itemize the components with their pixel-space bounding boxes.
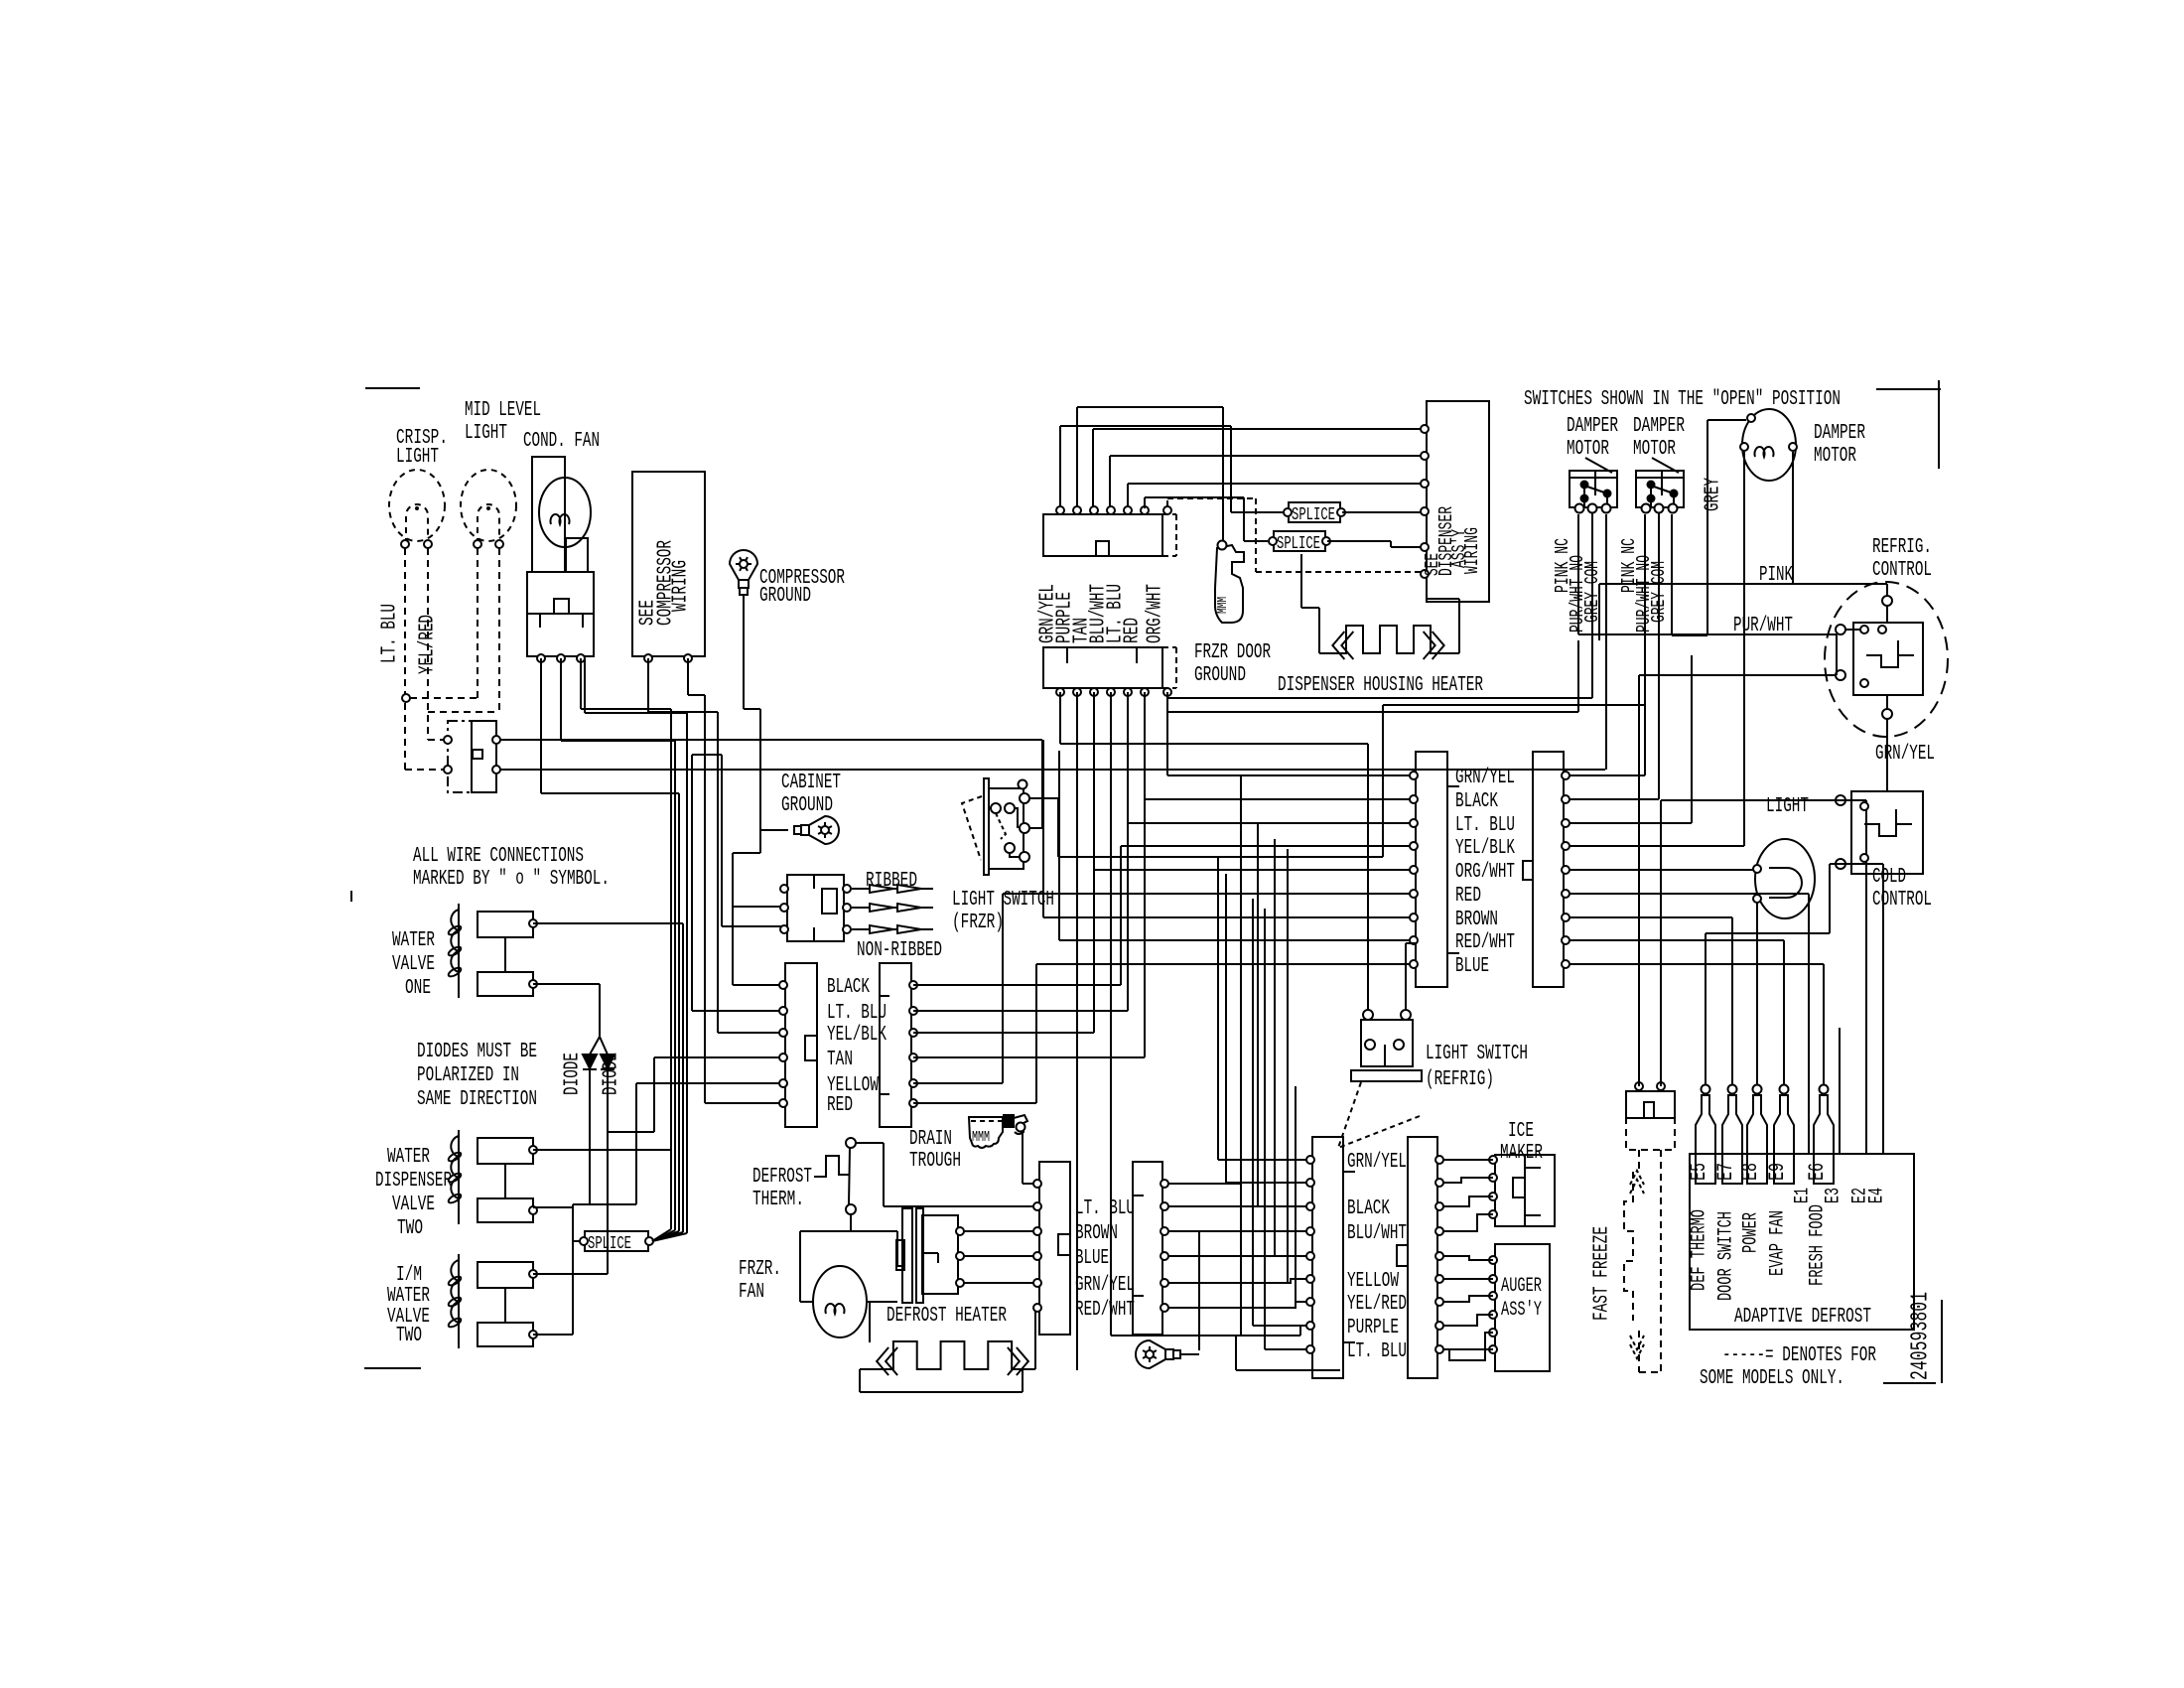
- svg-text:DAMPER: DAMPER: [1567, 415, 1618, 438]
- pin: [843, 885, 851, 893]
- wire: [913, 1056, 1145, 1058]
- wire: [1236, 1369, 1340, 1371]
- svg-text:E1: E1: [1791, 1188, 1814, 1203]
- wire long: [1240, 776, 1242, 1336]
- diode D2: [601, 1055, 614, 1068]
- wire: [867, 1301, 897, 1303]
- dashed wire: [1660, 1150, 1662, 1372]
- wire: [1127, 484, 1129, 506]
- door switch: [472, 721, 496, 792]
- wire: [561, 740, 675, 742]
- pin: [557, 654, 565, 662]
- connector C9: [1312, 1137, 1343, 1378]
- wire: [1218, 1159, 1312, 1161]
- svg-text:DAMPER: DAMPER: [1814, 422, 1865, 445]
- svg-text:BLACK: BLACK: [1347, 1197, 1390, 1220]
- svg-text:DIODE: DIODE: [562, 1053, 585, 1095]
- svg-text:LIGHT: LIGHT: [396, 446, 439, 469]
- svg-text:DAMPER: DAMPER: [1633, 415, 1685, 438]
- svg-text:GROUND: GROUND: [1194, 664, 1246, 687]
- wire E3: [1839, 1028, 1841, 1154]
- wire: [573, 1240, 581, 1242]
- svg-text:MID LEVEL: MID LEVEL: [465, 399, 541, 422]
- wire E6: [1823, 964, 1825, 1085]
- dashed ext: [1162, 513, 1176, 515]
- pin top: [1163, 506, 1171, 514]
- wire long: [1076, 775, 1078, 1370]
- dashed ext: [1175, 647, 1177, 688]
- wire: [1691, 655, 1693, 823]
- wire: [1301, 607, 1319, 609]
- connector notch: [1397, 1245, 1408, 1266]
- pin: [1562, 914, 1570, 921]
- svg-text:WATER: WATER: [392, 929, 435, 952]
- wire: [1427, 598, 1459, 600]
- wire E8: [1756, 903, 1758, 1085]
- svg-text:ONE: ONE: [405, 977, 431, 1000]
- leader: [1652, 458, 1679, 473]
- wire: [860, 1368, 870, 1370]
- water dispenser valve two coil: [458, 1130, 460, 1224]
- svg-text:WIRING: WIRING: [1461, 527, 1483, 574]
- box SEE DISPENSER ASS'Y WIRING: [1427, 401, 1489, 602]
- svg-text:MOTOR: MOTOR: [1814, 445, 1856, 468]
- dashed wire: [1255, 498, 1257, 572]
- pin: [779, 1054, 787, 1061]
- lever: [1651, 486, 1674, 493]
- pin: [1033, 1180, 1041, 1188]
- svg-text:SPLICE: SPLICE: [588, 1234, 631, 1254]
- svg-text:TROUGH: TROUGH: [909, 1150, 961, 1173]
- wire: [1022, 1131, 1024, 1184]
- damper switch 1: [1570, 471, 1617, 507]
- wire: [1577, 514, 1579, 634]
- pin: [1642, 504, 1651, 513]
- wire splice fan: [652, 1232, 683, 1241]
- light switch frzr body: [989, 788, 1024, 869]
- contact dot: [1604, 491, 1611, 497]
- pin: [492, 736, 500, 744]
- wire: [1168, 1282, 1288, 1284]
- pin bottom: [1090, 688, 1098, 696]
- svg-text:EVAP FAN: EVAP FAN: [1766, 1210, 1789, 1276]
- pin: [1435, 1179, 1443, 1187]
- wire: [1605, 514, 1607, 770]
- svg-text:RED: RED: [1455, 885, 1481, 908]
- wire: [504, 1288, 506, 1323]
- valve contact lower: [478, 972, 533, 996]
- contact: [1394, 1040, 1404, 1050]
- pin: [1562, 890, 1570, 898]
- wire: [1288, 1279, 1312, 1283]
- wire: [600, 1037, 608, 1055]
- wire: [1570, 963, 1824, 965]
- wire: [1127, 692, 1129, 1011]
- wire: [573, 1203, 636, 1205]
- wire dashed: [405, 769, 448, 771]
- contact dot: [1648, 495, 1655, 502]
- pin: [1410, 914, 1418, 921]
- wire splice fan: [652, 1233, 687, 1241]
- pin: [1489, 1329, 1497, 1336]
- wire E4: [1882, 864, 1884, 1154]
- terminal lug E9: [1774, 1095, 1794, 1184]
- wire to evap ground: [1198, 1231, 1200, 1350]
- wire YEL/RED dashed: [427, 548, 429, 740]
- wire: [1443, 1196, 1493, 1206]
- pin: [1562, 936, 1570, 944]
- svg-text:FRZR.: FRZR.: [739, 1258, 781, 1281]
- connector C1 upper: [1043, 514, 1162, 556]
- terminal: [1337, 508, 1345, 516]
- wire: [1570, 916, 1732, 918]
- wire to splice: [1231, 511, 1283, 513]
- wire: [1145, 496, 1244, 498]
- svg-text:BROWN: BROWN: [1075, 1222, 1118, 1245]
- divider: [1136, 647, 1138, 663]
- wire: [850, 1214, 852, 1231]
- svg-text:LT. BLU: LT. BLU: [379, 604, 402, 663]
- divider: [813, 927, 815, 941]
- wire: [704, 695, 706, 1103]
- wire: [896, 1231, 898, 1266]
- connector ribbed: [787, 875, 844, 941]
- pin: [909, 1054, 917, 1061]
- ribbed arrows: [852, 885, 933, 893]
- stub: [880, 995, 889, 997]
- wire: [560, 658, 562, 741]
- wire: [1792, 452, 1794, 584]
- wire: [691, 755, 693, 1011]
- wire: [1660, 800, 1662, 1086]
- wire: [607, 1132, 609, 1274]
- wire thick: [744, 708, 760, 710]
- wire i/m valve bottom: [533, 1334, 573, 1336]
- wire: [1598, 584, 1600, 640]
- plug notch: [896, 1240, 904, 1270]
- stub: [1525, 1214, 1541, 1216]
- wire valve2 top: [533, 1149, 671, 1151]
- svg-text:VALVE: VALVE: [392, 953, 435, 976]
- pin: [444, 766, 452, 774]
- pin: [1435, 1227, 1443, 1235]
- wire: [1570, 798, 1659, 800]
- diode D1: [583, 1055, 597, 1068]
- svg-text:GROUND: GROUND: [759, 585, 811, 608]
- notch: [1644, 1102, 1654, 1118]
- pin: [909, 1079, 917, 1087]
- pin top: [1107, 506, 1115, 514]
- pin: [644, 654, 652, 662]
- wire: [1257, 824, 1259, 1206]
- svg-text:E3: E3: [1822, 1188, 1844, 1203]
- wire: [1226, 1182, 1312, 1184]
- splice 1: [1289, 502, 1340, 522]
- svg-text:RED/WHT: RED/WHT: [1455, 931, 1515, 954]
- pin: [779, 981, 787, 989]
- svg-text:E9: E9: [1765, 1163, 1790, 1181]
- dashed wire: [1167, 497, 1256, 499]
- stub: [1447, 952, 1459, 954]
- wire i/m valve top: [533, 1273, 608, 1275]
- contact dot: [1581, 495, 1588, 502]
- wire: [1058, 856, 1383, 858]
- pin: [1410, 772, 1418, 779]
- pin: [1489, 1174, 1497, 1182]
- pin: [1562, 960, 1570, 968]
- svg-text:DEFROST HEATER: DEFROST HEATER: [887, 1305, 1007, 1328]
- light switch frzr plate: [984, 778, 989, 875]
- wire: [1093, 428, 1423, 430]
- pin: [1306, 1322, 1314, 1330]
- pin: [1410, 866, 1418, 874]
- pin: [1489, 1275, 1497, 1283]
- wire diode2 down: [607, 1070, 609, 1132]
- pin bottom: [1073, 688, 1081, 696]
- connector notch: [554, 599, 569, 614]
- pin: [1575, 504, 1584, 513]
- wire: [1638, 675, 1640, 1086]
- drain trough heater: [969, 1117, 1003, 1148]
- pin top: [1090, 506, 1098, 514]
- pin: [529, 980, 537, 988]
- damper motor coil: [1742, 409, 1796, 481]
- wire: [1057, 798, 1059, 857]
- stub: [1583, 486, 1585, 506]
- wire: [1059, 692, 1061, 744]
- wire E5: [1705, 933, 1706, 1085]
- wire thick: [1658, 512, 1660, 643]
- pin: [1421, 425, 1429, 433]
- wire LT. BLU: [884, 1205, 1039, 1207]
- svg-text:TAN: TAN: [827, 1049, 853, 1071]
- pin: [1435, 1275, 1443, 1283]
- pin bottom: [1056, 688, 1064, 696]
- pin: [909, 981, 917, 989]
- crisper light lamp: [389, 470, 445, 541]
- terminal lug E5: [1696, 1095, 1715, 1184]
- svg-text:CONTROL: CONTROL: [1872, 889, 1932, 912]
- wire: [1059, 426, 1061, 506]
- svg-text:BLUE: BLUE: [1455, 955, 1489, 978]
- page tick top-left: [365, 387, 420, 389]
- pin: [1160, 1227, 1168, 1235]
- wire LT. BLU to connector: [692, 1010, 783, 1012]
- pin: [1489, 1193, 1497, 1200]
- wire: [860, 1391, 1023, 1393]
- wire: [1296, 1302, 1312, 1308]
- pin: [1602, 504, 1611, 513]
- pin: [779, 1029, 787, 1037]
- wire: [1274, 839, 1276, 1256]
- i/m water valve two coil: [458, 1254, 460, 1348]
- page corner bracket top-right: [1876, 388, 1941, 390]
- stem: [1384, 1045, 1386, 1066]
- wire: [1252, 899, 1254, 1326]
- drain trough clip: [1004, 1115, 1014, 1127]
- wire LT. BLU: [1128, 822, 1416, 824]
- svg-text:SPLICE: SPLICE: [1277, 534, 1320, 554]
- wire: [1671, 514, 1673, 635]
- wire: [733, 984, 783, 986]
- wire: [1443, 1315, 1493, 1326]
- cold control box: [1851, 791, 1923, 874]
- wire: [1265, 1348, 1312, 1350]
- notch: [822, 889, 837, 914]
- pin: [1363, 1010, 1373, 1020]
- svg-text:FAN: FAN: [739, 1281, 764, 1304]
- svg-text:DISPENSER: DISPENSER: [375, 1170, 452, 1193]
- valve contact lower: [478, 1323, 533, 1346]
- wire bundle: [670, 709, 672, 1229]
- pin: [1160, 1304, 1168, 1312]
- wire: [913, 1010, 1128, 1012]
- wire: [1743, 452, 1745, 846]
- svg-text:ORG/WHT: ORG/WHT: [1145, 584, 1167, 643]
- dashed: [971, 1120, 1003, 1122]
- wire splice fan: [652, 1231, 679, 1241]
- wire: [1661, 799, 1866, 801]
- wire valve2 bottom: [533, 1206, 573, 1208]
- wire: [1110, 692, 1112, 1336]
- svg-text:DEF THERMO: DEF THERMO: [1688, 1209, 1710, 1291]
- pin: [1489, 1256, 1497, 1264]
- wire: [1028, 797, 1058, 799]
- pin: [1033, 1279, 1041, 1287]
- mid level light lamp: [461, 470, 516, 541]
- dashed ext: [1162, 646, 1176, 648]
- pin: [529, 1331, 537, 1338]
- wire: [1035, 964, 1037, 1103]
- pin: [1033, 1227, 1041, 1235]
- valve contact upper: [478, 1262, 533, 1288]
- wire: [581, 708, 671, 710]
- contact dot: [1648, 482, 1655, 489]
- svg-text:SOME MODELS ONLY.: SOME MODELS ONLY.: [1700, 1367, 1844, 1390]
- terminal: [846, 1138, 856, 1148]
- compressor ground symbol: [730, 550, 757, 595]
- pin: [1306, 1156, 1314, 1164]
- svg-text:YEL/BLK: YEL/BLK: [827, 1024, 887, 1047]
- stub: [1886, 695, 1888, 709]
- evap ground symbol: [1136, 1340, 1180, 1368]
- wire: [653, 1057, 655, 1132]
- wire diode1 down: [589, 1070, 591, 1204]
- frzr fan motor: [813, 1266, 867, 1337]
- pin: [956, 1252, 964, 1260]
- wire: [913, 984, 1121, 986]
- divider: [813, 875, 815, 889]
- terminal: [474, 540, 481, 548]
- svg-text:DOOR SWITCH: DOOR SWITCH: [1714, 1211, 1737, 1301]
- wire: [1644, 635, 1646, 775]
- wire: [1443, 1333, 1493, 1349]
- wire: [1167, 697, 1592, 699]
- wire: [540, 658, 542, 793]
- wire: [1168, 1255, 1312, 1257]
- wire LT. BLU dashed: [404, 548, 406, 770]
- fast freeze arrow down: [1630, 1336, 1644, 1358]
- terminal: [645, 1237, 653, 1245]
- wire: [1406, 942, 1416, 944]
- wire: [1447, 652, 1459, 654]
- wire E2: [1865, 800, 1867, 1154]
- wire: [1707, 419, 1746, 421]
- pin: [1017, 1123, 1025, 1132]
- wire: [647, 658, 649, 712]
- wire: [1002, 894, 1004, 1083]
- wire BROWN: [1043, 916, 1416, 918]
- contact dot: [1581, 482, 1588, 489]
- stub: [1133, 1195, 1144, 1196]
- wire: [1300, 1325, 1312, 1327]
- defrost therm symbol: [814, 1156, 849, 1177]
- defrost heater plug bar: [916, 1208, 923, 1303]
- wire: [580, 658, 582, 709]
- dashed wire: [1639, 1371, 1661, 1373]
- svg-text:WATER: WATER: [387, 1285, 430, 1308]
- stub: [880, 1093, 889, 1095]
- fast freeze arrow up: [1630, 1171, 1644, 1194]
- wire: [635, 1083, 637, 1204]
- pin: [1033, 1202, 1041, 1210]
- pin: [1669, 504, 1678, 513]
- light switch refrig body: [1361, 1020, 1413, 1066]
- wire: [859, 1369, 861, 1392]
- svg-text:SWITCHES SHOWN IN THE "OPEN" P: SWITCHES SHOWN IN THE "OPEN" POSITION: [1524, 388, 1841, 411]
- light switch refrig base: [1351, 1070, 1422, 1081]
- wire RED/WHT: [1059, 939, 1416, 941]
- svg-text:DEFROST: DEFROST: [752, 1166, 812, 1189]
- svg-text:MMM: MMM: [972, 1129, 990, 1146]
- dashed wire: [1256, 571, 1423, 573]
- wire: [584, 658, 586, 713]
- cond fan bracket: [566, 538, 588, 572]
- terminal: [495, 540, 503, 548]
- wire RED to connector: [705, 1102, 783, 1104]
- pin: [1421, 543, 1429, 551]
- wire: [1299, 1326, 1301, 1336]
- svg-text:ALL WIRE CONNECTIONS: ALL WIRE CONNECTIONS: [413, 845, 584, 868]
- stub: [922, 1252, 938, 1254]
- terminal: [846, 1204, 856, 1214]
- connector notch: [1058, 1234, 1070, 1255]
- wire: [1168, 1230, 1312, 1232]
- pin: [1306, 1179, 1314, 1187]
- box SEE COMPRESSOR WIRING: [632, 472, 705, 656]
- wire dashed: [410, 697, 478, 699]
- connector divider: [539, 614, 541, 628]
- wire: [687, 658, 689, 695]
- wire long y775: [500, 769, 1605, 771]
- wire: [1383, 704, 1645, 706]
- svg-text:E7: E7: [1713, 1163, 1738, 1181]
- pin: [1435, 1322, 1443, 1330]
- defrost heater body: [922, 1215, 958, 1294]
- terminal: [1753, 1085, 1762, 1094]
- connector notch: [1096, 541, 1109, 556]
- pin: [1836, 859, 1845, 869]
- pin bottom: [1107, 688, 1115, 696]
- wire: [1166, 692, 1168, 775]
- pin: [1019, 780, 1027, 789]
- wire: [1829, 864, 1831, 933]
- wire dashed: [428, 711, 499, 713]
- svg-text:240593801: 240593801: [1907, 1292, 1934, 1380]
- pin bottom: [1124, 688, 1132, 696]
- wire: [1010, 853, 1021, 857]
- wire: [608, 1131, 654, 1133]
